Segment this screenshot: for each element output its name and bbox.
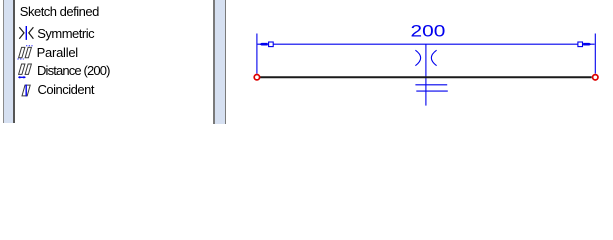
Parallel label bbox=[37, 46, 78, 59]
left endpoint bbox=[254, 75, 259, 80]
coincident icon bbox=[17, 82, 37, 98]
canvas drawing bbox=[0, 0, 613, 127]
distance icon bbox=[17, 62, 37, 80]
Symmetric label bbox=[37, 27, 94, 40]
symmetric symbol left paren bbox=[415, 50, 420, 65]
svg-text:200: 200 bbox=[411, 21, 446, 40]
midline mark lower bbox=[416, 90, 448, 92]
panel title: Sketch defined bbox=[20, 5, 99, 18]
parallel icon bbox=[17, 44, 37, 61]
right endpoint bbox=[593, 75, 598, 80]
right arrowhead bbox=[583, 43, 591, 46]
symmetry axis vertical line bbox=[425, 44, 427, 105]
sketch line bbox=[260, 76, 592, 78]
left scrollbar strip bbox=[3, 0, 4, 123]
right extension line bbox=[594, 34, 596, 74]
dimension line bbox=[258, 43, 595, 45]
middle divider strip bbox=[213, 0, 215, 124]
Coincident label bbox=[38, 83, 94, 96]
left extension line bbox=[256, 34, 258, 74]
midline mark upper bbox=[415, 84, 447, 86]
symmetric symbol right paren bbox=[431, 50, 436, 65]
symmetric icon bbox=[17, 25, 37, 41]
left handle square bbox=[269, 42, 274, 47]
Distance (200) label bbox=[37, 64, 110, 77]
right handle square bbox=[578, 42, 583, 47]
left arrowhead bbox=[259, 43, 267, 46]
